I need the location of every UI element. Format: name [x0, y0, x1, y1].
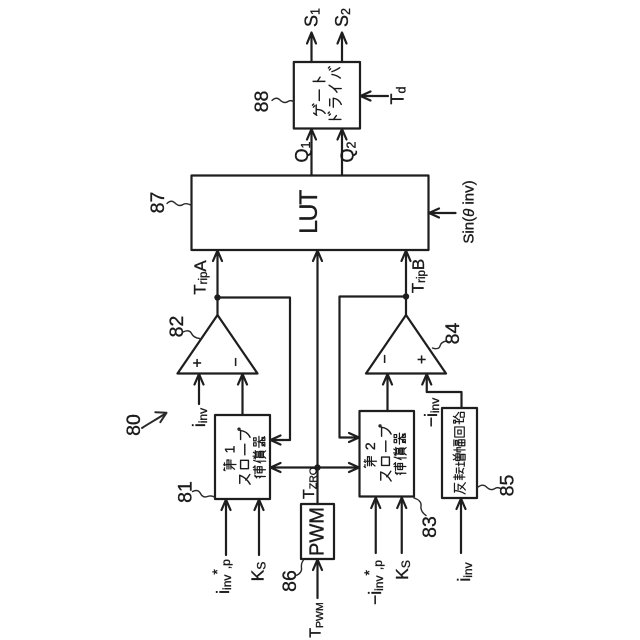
arrowhead T_ZRO into LUT [313, 251, 322, 262]
wire TripB (comparator 84 output to LUT) [405, 251, 407, 315]
svg-text:83: 83 [419, 516, 441, 538]
wire Sin(theta inv) input [430, 212, 456, 214]
block 81 text line1 dai-1 [224, 460, 236, 471]
wire TripB feedback to block 83 [340, 297, 407, 438]
wire Ks input to block 83 [401, 498, 403, 553]
block 88 text gate driver line2 (do-ra-i-ba) [328, 112, 341, 119]
arrowhead T_ZRO into block 83 [349, 463, 359, 472]
arrowhead into block 83 input2 [397, 498, 406, 509]
svg-text:87: 87 [147, 192, 169, 214]
arrowhead into comp84 plus [422, 374, 431, 385]
node TripA junction [214, 294, 220, 300]
block 81 text line2 su-ro-pu [240, 474, 250, 484]
arrowhead Q2 [338, 129, 347, 140]
svg-text:PWM: PWM [307, 507, 329, 556]
leader squiggle for 87 [167, 201, 192, 205]
leader squiggle for 86 [296, 560, 304, 576]
wire Q1 [310, 129, 312, 176]
svg-text:Sin(θ inv): Sin(θ inv) [461, 180, 478, 243]
wire iinv input to comparator 82 plus [198, 375, 200, 405]
arrowhead feedback into block 83 [349, 433, 359, 442]
svg-text:85: 85 [497, 475, 519, 497]
wire T_ZRO vertical (PWM to LUT) [316, 251, 318, 504]
arrowhead S1 [307, 33, 316, 44]
arrowhead feedback into block 81 [271, 436, 281, 445]
arrowhead TripA [213, 251, 222, 262]
block 88 gate driver box [294, 62, 360, 129]
wire iinv input to block 85 [460, 499, 462, 553]
block 85 text han-ten-zou-fuku-kai-ro [454, 483, 465, 494]
arrowhead iinv into comp82 [195, 374, 204, 385]
svg-text:+: + [414, 355, 431, 364]
leader squiggle for 85 [478, 485, 501, 489]
arrowhead TripB [402, 251, 411, 262]
svg-text:80: 80 [123, 414, 145, 436]
leader squiggle for 88 [272, 98, 294, 102]
block 86 PWM box [301, 504, 334, 559]
node TripB junction [403, 293, 409, 299]
wire Q2 [341, 129, 343, 176]
svg-text:−: − [228, 357, 245, 366]
wire iinv*,p input to block 81 [225, 500, 227, 555]
arrowhead S2 [338, 33, 347, 44]
leader squiggle for 82 [183, 331, 200, 339]
comparator 84 triangle [366, 315, 446, 374]
arrowhead Q1 [307, 129, 316, 140]
svg-text:88: 88 [251, 91, 273, 113]
arrowhead into block 83 input1 [371, 498, 380, 509]
wire block 85 output (-iinv) to comparator 84 plus [427, 375, 462, 409]
wire T_ZRO horizontal to block 83 [318, 466, 359, 468]
wire Ks input to block 81 [258, 500, 260, 555]
wire -iinv*,p input to block 83 [375, 498, 377, 553]
arrowhead into comp84 minus [383, 374, 392, 385]
svg-text:+: + [190, 358, 207, 367]
svg-text:84: 84 [442, 323, 464, 345]
wire TripA feedback to block 81 [218, 298, 291, 441]
leader squiggle for 83 [414, 498, 426, 516]
arrowhead into comp82 minus [238, 374, 247, 385]
arrowhead into block 81 input1 [222, 500, 231, 511]
wire block 81 output to comparator 82 minus [241, 375, 243, 416]
block 83 text line2 su-ro-pu [381, 471, 391, 481]
block 87 LUT box [192, 176, 429, 251]
svg-text:LUT: LUT [295, 190, 323, 234]
arrow 80 pointer [142, 414, 166, 429]
arrowhead into block 81 input2 [255, 500, 264, 511]
svg-text:2: 2 [362, 442, 378, 450]
leader squiggle for 81 [193, 490, 216, 497]
arrowhead into block 85 [457, 499, 466, 510]
wire S1 output [310, 33, 312, 62]
wire block 83 output to comparator 84 minus [386, 375, 388, 412]
arrowhead T_ZRO into block 81 [271, 463, 281, 472]
block 81 box (1st slope compensator) [215, 415, 270, 499]
arrowhead T_PWM into PWM [313, 560, 322, 571]
svg-text:1: 1 [222, 445, 238, 453]
svg-text:81: 81 [175, 481, 197, 503]
svg-text:82: 82 [166, 316, 188, 338]
block 83 box (2nd slope compensator) [360, 411, 415, 497]
block 81 text line3 ho-shou-ki [253, 466, 265, 478]
wire S2 output [341, 33, 343, 62]
block 83 text line1 dai-2 [364, 457, 376, 468]
wire T_PWM input [316, 560, 318, 598]
comparator 82 triangle [178, 315, 258, 374]
block 83 text line3 ho-shou-ki [394, 463, 406, 475]
wire T_ZRO horizontal to block 81 [271, 466, 318, 468]
node T_ZRO junction [314, 464, 320, 470]
block 85 box (inverting amplifier) [442, 408, 477, 498]
wire TripA (comparator 82 output to LUT) [216, 251, 218, 315]
svg-text:−: − [377, 354, 394, 363]
block 88 text gate driver line1 (ge-to) [312, 104, 325, 115]
wire Td input [361, 95, 388, 97]
svg-text:86: 86 [279, 570, 301, 592]
arrowhead Sin [429, 209, 439, 218]
arrowhead Td [361, 92, 371, 101]
arrowhead 80 pointer [155, 412, 166, 422]
leader squiggle for 84 [433, 341, 448, 349]
